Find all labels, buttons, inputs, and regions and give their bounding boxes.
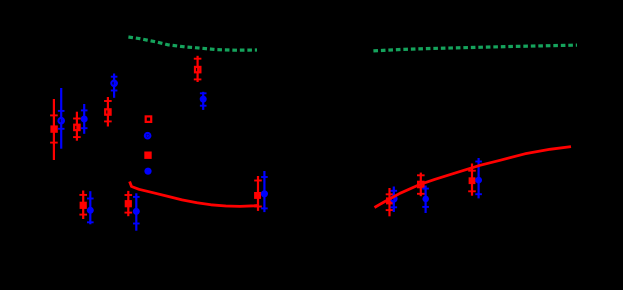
data point C3 red open square with error bar: [104, 97, 112, 127]
data point C2 red open square with error bar: [73, 112, 81, 141]
data point LB1 blue filled circle with error bar: [87, 191, 94, 224]
data point R2 red open square with error bar: [417, 173, 425, 197]
legend open red square marker: [146, 116, 152, 122]
data point LB2 blue filled circle with error bar: [133, 193, 140, 230]
data point R3 red filled square with error bar: [468, 164, 476, 196]
data point LB1 red filled square with error bar: [79, 191, 87, 220]
data point LB2 red filled square with error bar: [125, 191, 133, 216]
data point LB3 blue filled circle with error bar: [261, 171, 268, 212]
data point C3 blue open circle with error bar: [111, 74, 118, 98]
data point R1 red filled square with error bar: [386, 188, 394, 216]
legend filled blue circle marker: [144, 168, 151, 175]
green dashed theory curve (left panel): [128, 37, 257, 50]
legend open blue circle marker: [145, 133, 151, 139]
green dashed theory curve (right panel): [373, 45, 577, 51]
data point R3 blue filled circle with error bar: [475, 158, 482, 198]
data point C2 blue filled circle with error bar: [81, 104, 88, 134]
data point LB3 red filled square with error bar: [254, 176, 262, 211]
red solid fit curve (left panel): [130, 182, 259, 207]
data point R1 blue open circle with error bar: [391, 187, 398, 213]
data point C4 red open square with error bar: [194, 56, 202, 82]
legend filled red square marker: [144, 152, 151, 159]
data point C4 blue filled circle with error bar: [200, 92, 207, 110]
data point C1 blue open circle with error bar: [58, 88, 65, 149]
data point C1 red filled square with error bar: [50, 99, 58, 160]
data point R2 blue filled circle with error bar: [422, 186, 429, 214]
red solid fit curve (right panel): [375, 147, 572, 208]
